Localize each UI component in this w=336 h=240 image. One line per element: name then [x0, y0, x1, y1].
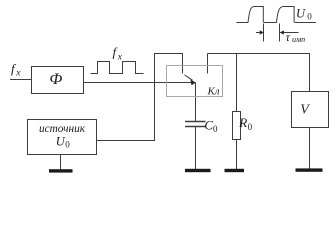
svg-text:0: 0	[65, 139, 70, 149]
svg-text:0: 0	[307, 11, 312, 21]
svg-text:V: V	[300, 102, 310, 117]
svg-text:имп: имп	[292, 35, 305, 44]
svg-text:x: x	[15, 68, 21, 78]
svg-text:R: R	[238, 115, 247, 130]
svg-text:U: U	[296, 6, 306, 20]
svg-text:Кл: Кл	[207, 85, 220, 97]
svg-text:x: x	[117, 53, 123, 63]
svg-text:0: 0	[248, 122, 253, 132]
svg-text:τ: τ	[286, 30, 291, 44]
svg-text:U: U	[56, 134, 66, 148]
svg-text:Ф: Ф	[49, 71, 62, 88]
svg-text:0: 0	[213, 124, 218, 134]
